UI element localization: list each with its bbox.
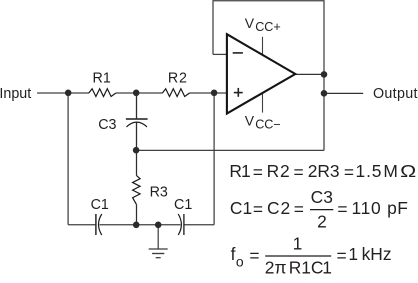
svg-text:Output: Output [373,86,418,102]
wire VCC+ pin [262,37,264,55]
svg-text:CC−: CC− [255,117,281,131]
svg-text:=: = [253,199,263,219]
capacitor C1 right [178,214,184,235]
node + input junction [211,90,218,97]
equation 3 fraction bar [265,255,331,257]
svg-text:kHz: kHz [362,244,392,264]
svg-text:=: = [294,162,304,182]
svg-text:R1: R1 [93,71,111,87]
svg-text:V: V [245,112,255,128]
svg-text:R1: R1 [289,258,311,278]
wire feedback from node to output branch [136,149,324,151]
svg-text:=: = [344,162,354,182]
capacitor C1 left [96,214,102,235]
svg-text:Ω: Ω [400,162,416,182]
svg-text:R2: R2 [267,161,291,181]
capacitor C3 [126,119,148,127]
node R3 bottom rail junction [133,222,140,229]
svg-text:1.5: 1.5 [356,161,383,181]
node R1-R2-C3 junction [133,90,140,97]
equation 1: R1 = R2 = 2R3 = 1.5 Mohm [229,161,416,182]
wire C3 top lead [136,93,138,119]
ground [149,249,168,258]
wire R3 top lead [136,150,138,175]
resistor R1 [89,89,116,97]
svg-text:110: 110 [352,198,382,218]
svg-text:Input: Input [0,86,31,102]
svg-text:2π: 2π [265,258,287,278]
op-amp U1 [227,34,295,113]
node output branch junction [321,90,328,97]
svg-text:R1: R1 [229,161,250,181]
svg-text:R3: R3 [150,184,168,200]
svg-text:1: 1 [348,244,358,264]
svg-text:C2: C2 [267,198,291,218]
svg-text:=: = [253,162,263,182]
wire op-amp output lead [295,73,324,75]
wire ground stem [157,225,159,249]
wire VCC- pin [262,93,264,112]
svg-text:1: 1 [293,234,303,254]
svg-text:=: = [294,199,304,219]
svg-text:C3: C3 [311,187,333,207]
equation 2: C1 = C2 = C3/2 = 110 pF [230,187,408,232]
svg-text:f: f [231,244,236,264]
svg-text:V: V [245,15,255,31]
node output apex junction [321,71,328,78]
resistor R2 [162,89,189,97]
svg-text:C3: C3 [98,117,116,133]
svg-text:C1: C1 [91,197,109,213]
svg-text:C1: C1 [311,258,331,278]
op-amp minus sign [233,52,243,54]
svg-text:=: = [337,246,347,266]
svg-text:C1: C1 [230,198,252,218]
wire R1 to R2 [116,92,163,94]
svg-text:o: o [236,253,244,269]
wire output lead [324,92,363,94]
equation 3: fo = 1/(2pi R1C1) = 1 kHz [231,234,392,278]
svg-text:CC+: CC+ [255,20,281,34]
wire bottom rail center [100,224,181,226]
node ground rail junction [155,222,162,229]
wire input lead [37,92,89,94]
resistor R3 [133,175,141,204]
wire minus input lead [213,53,227,55]
wire left vertical from input node [67,93,69,225]
svg-text:pF: pF [387,198,408,218]
svg-text:R2: R2 [168,71,188,87]
wire right vertical to + input node [213,93,215,225]
wire R2 to op-amp + input [190,92,227,94]
node input junction [65,90,72,97]
svg-text:M: M [383,161,398,181]
wire bottom rail right [185,224,215,226]
wire bottom rail left [68,224,95,226]
svg-text:2R3: 2R3 [308,161,340,181]
svg-text:=: = [337,199,347,219]
op-amp plus sign [234,88,243,97]
svg-text:2: 2 [317,211,327,231]
equation 2 fraction bar [310,209,333,211]
svg-text:=: = [249,246,259,266]
svg-text:C1: C1 [174,197,192,213]
wire feedback box top and right [213,1,324,151]
wire R3 bottom lead [136,204,138,225]
node C3-R3-feedback junction [133,147,140,154]
wire C3 bottom lead [136,122,138,150]
